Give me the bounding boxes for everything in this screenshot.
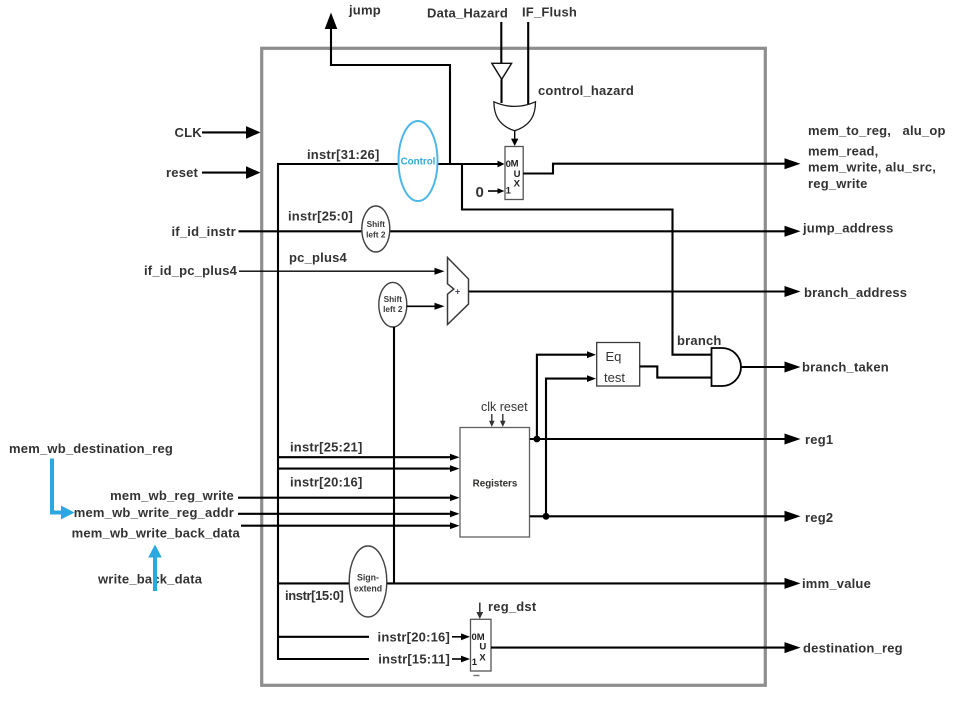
svg-text:test: test [604,370,625,385]
wire instr[20:16] to mux2 [278,636,369,638]
Eq test comparator [597,343,640,387]
svg-text:write_back_data: write_back_data [97,572,203,587]
wire reg2 output [530,515,785,517]
svg-text:Shift: Shift [384,294,403,304]
wire branch control net [462,164,711,355]
svg-text:branch_address: branch_address [804,285,907,300]
svg-text:left 2: left 2 [383,304,403,314]
Registers block [460,428,530,538]
svg-text:instr[31:26]: instr[31:26] [307,147,379,162]
wire OR output to mux [514,131,516,139]
svg-text:1: 1 [506,186,512,197]
svg-text:1: 1 [472,657,478,668]
svg-text:instr[15:0]: instr[15:0] [285,588,344,603]
wire if_id_instr to shift left 2 and jump_address [239,230,786,232]
svg-text:branch_taken: branch_taken [802,360,889,375]
wire mem_wb_write_back_data to Registers [241,525,451,527]
wire 0 to mux input 1 [488,190,498,192]
svg-text:Shift: Shift [367,219,386,229]
wire sign extend imm_value line [278,582,785,584]
svg-text:0: 0 [476,184,484,201]
svg-text:jump: jump [348,3,381,18]
svg-text:reset: reset [166,165,199,180]
svg-text:control_hazard: control_hazard [538,83,634,98]
svg-text:U: U [479,642,486,653]
svg-text:mem_wb_write_back_data: mem_wb_write_back_data [72,526,241,541]
node mux2 select dash [474,675,480,677]
svg-text:reg1: reg1 [805,432,833,447]
wire instruction trunk vertical [277,163,279,660]
AND gate branch_taken [712,348,742,386]
svg-text:if_id_pc_plus4: if_id_pc_plus4 [144,263,238,278]
svg-text:instr[25:21]: instr[25:21] [290,440,362,455]
wire reset arrow into Registers [502,414,504,421]
svg-text:Control: Control [401,157,436,168]
wire instr[15:11] to mux2 [278,658,369,660]
wire mem_wb_write_reg_addr to Registers [238,513,451,515]
svg-text:mem_to_reg, alu_op: mem_to_reg, alu_op [808,123,946,138]
svg-text:mem_wb_write_reg_addr: mem_wb_write_reg_addr [74,505,234,520]
svg-text:instr[20:16]: instr[20:16] [290,475,362,490]
svg-text:extend: extend [354,584,382,594]
sign extend oval [349,546,387,617]
wire pc_plus4 to adder [239,270,436,272]
op-amp Control oval [399,121,438,201]
svg-text:clk reset: clk reset [481,400,528,414]
svg-text:reg2: reg2 [805,510,833,525]
shift left 2 oval upper [362,206,390,252]
svg-text:M: M [511,159,519,170]
svg-text:Data_Hazard: Data_Hazard [427,6,508,21]
wire instr[25:21] to Registers [278,456,451,458]
svg-text:Eq: Eq [606,349,622,364]
module boundary box [262,48,766,685]
svg-text:mem_write, alu_src,: mem_write, alu_src, [808,160,936,175]
wire adder output branch_address [469,290,785,292]
svg-text:pc_plus4: pc_plus4 [289,250,348,265]
adder branch address [448,258,469,325]
svg-text:CLK: CLK [175,125,203,140]
svg-text:instr[20:16]: instr[20:16] [378,630,450,645]
svg-text:jump_address: jump_address [802,221,894,236]
wire shift2 to adder [407,305,436,307]
wire reg_dst into mux2 [479,603,481,613]
wire AND output branch_taken [741,366,785,368]
wire instr[31:26] control line into mux [277,163,498,165]
wire mux output control signals [523,164,785,174]
svg-text:mem_wb_destination_reg: mem_wb_destination_reg [9,441,173,456]
wire mem_wb_reg_write to Registers [238,497,451,499]
node junction reg1 [534,436,541,443]
wire inverter output to OR gate [500,79,502,103]
wire Eq test output to AND [640,366,711,377]
svg-text:destination_reg: destination_reg [803,641,903,656]
wire reg1 output [530,438,785,440]
svg-text:reg_write: reg_write [808,176,868,191]
svg-text:X: X [479,653,486,664]
svg-text:instr[15:11]: instr[15:11] [378,652,450,667]
svg-text:instr[25:0]: instr[25:0] [288,209,353,224]
wire jump net [331,29,450,164]
shift left 2 oval lower [379,282,407,327]
wire cyan up arrow [153,557,157,592]
svg-text:IF_Flush: IF_Flush [522,5,577,20]
svg-text:mem_wb_reg_write: mem_wb_reg_write [110,488,234,503]
svg-text:Registers: Registers [473,479,518,490]
mux U1 hazard mux [505,147,523,200]
svg-text:if_id_instr: if_id_instr [172,224,236,239]
wire reset into box [202,172,247,174]
wire mux2 output destination_reg [491,647,785,649]
svg-text:+: + [455,287,460,297]
wire cyan elbow arrow [52,459,62,513]
svg-text:branch: branch [677,333,722,348]
wire instr[20:16] to Registers [278,468,451,470]
svg-text:imm_value: imm_value [802,576,871,591]
svg-text:reg_dst: reg_dst [488,599,537,614]
wire CLK into box [202,131,247,133]
svg-text:mem_read,: mem_read, [808,144,878,159]
wire reg1 to Eq test [537,355,588,439]
wire IF_Flush to OR gate [527,22,529,104]
wire clk arrow into Registers [491,414,493,421]
node junction reg2 [543,513,550,520]
wire sign extend riser to shift2 [393,327,395,583]
svg-text:left 2: left 2 [366,230,386,240]
OR gate control_hazard [494,102,536,131]
inverter on Data_Hazard [492,63,512,79]
wire reg2 to Eq test [546,379,588,517]
wire Data_Hazard to inverter [500,22,502,64]
svg-text:X: X [514,179,521,190]
mux U2 reg_dst mux [471,619,492,671]
svg-text:Sign-: Sign- [357,573,379,583]
